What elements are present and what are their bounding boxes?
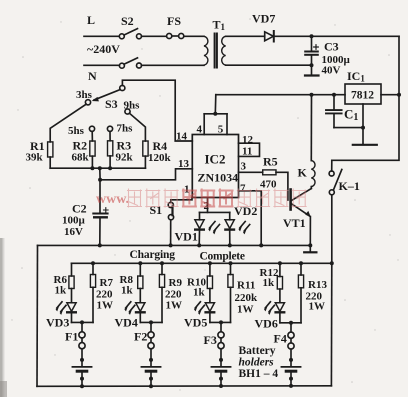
battery group 2 xyxy=(124,261,164,388)
wire join group 3 xyxy=(210,321,231,323)
resistor R10 xyxy=(207,276,212,289)
svg-text:VD3: VD3 xyxy=(46,316,69,330)
contact 9hs xyxy=(125,109,130,114)
wire R6 branch xyxy=(71,263,73,276)
resistor R4 xyxy=(143,141,148,156)
wire R10 branch xyxy=(209,263,211,276)
wire common rail R1-R4 xyxy=(50,167,145,169)
battery BH1 xyxy=(72,366,91,368)
connector F3 xyxy=(220,322,222,331)
switch S3 wiper arm xyxy=(94,90,120,100)
battery group 4 xyxy=(264,261,304,388)
wire R11 branch xyxy=(230,263,232,274)
watermark xyxy=(96,189,307,208)
IC2 box ZN1034 xyxy=(192,135,238,198)
node C1 bottom junction xyxy=(361,126,365,130)
svg-text:C3: C3 xyxy=(324,40,339,54)
svg-text:220k: 220k xyxy=(235,292,259,304)
svg-text:F1: F1 xyxy=(65,330,78,344)
svg-text:R5: R5 xyxy=(263,155,278,169)
node VD1 on rail A xyxy=(197,243,201,247)
svg-text:VD1: VD1 xyxy=(175,230,198,244)
svg-text:39k: 39k xyxy=(26,152,44,164)
wire pins 4-5 loop top xyxy=(204,113,227,115)
svg-text:4: 4 xyxy=(197,124,203,136)
resistor R6 xyxy=(69,276,74,289)
wire 3hs to R1 xyxy=(50,104,86,142)
wire R12 branch xyxy=(279,263,281,276)
bottom rail xyxy=(37,385,331,388)
resistor R2 xyxy=(90,141,95,156)
svg-text:VT1: VT1 xyxy=(283,216,306,230)
svg-text:~240V: ~240V xyxy=(87,42,120,56)
svg-text:R4: R4 xyxy=(153,139,168,153)
svg-text:1k: 1k xyxy=(121,285,134,297)
svg-text:IC2: IC2 xyxy=(205,152,226,167)
wire join group 1 xyxy=(72,321,94,323)
node R7 top xyxy=(91,261,95,265)
svg-text:Charging: Charging xyxy=(130,249,176,261)
svg-text:13: 13 xyxy=(178,158,190,170)
LED VD1 arrows xyxy=(210,222,216,229)
pin 4 stub xyxy=(203,114,205,135)
svg-text:Complete: Complete xyxy=(200,251,246,263)
svg-text:R9: R9 xyxy=(169,277,183,289)
svg-text:ZN1034: ZN1034 xyxy=(198,171,239,185)
relay K coil xyxy=(311,161,315,187)
switch S2 pole N xyxy=(119,63,124,68)
svg-text:1W: 1W xyxy=(166,300,183,312)
LED VD1 xyxy=(199,212,201,219)
svg-text:1W: 1W xyxy=(237,304,254,316)
resistor R7 xyxy=(90,275,95,288)
wire 7812 ground pin xyxy=(362,104,364,128)
MIDDLE SECTION xyxy=(48,80,193,245)
pin 2 wire to LEDs xyxy=(207,198,209,213)
svg-text:7812: 7812 xyxy=(351,90,374,102)
pin 5 stub xyxy=(226,114,228,135)
svg-text:VD6: VD6 xyxy=(255,317,278,331)
pin 12 / pin 11 link loop xyxy=(239,143,260,156)
wire 12V rail xyxy=(216,94,345,96)
node R13 top xyxy=(299,261,303,265)
wire supply drop from 12V rail xyxy=(214,95,217,114)
transistor VT1 xyxy=(289,190,292,210)
svg-text:F4: F4 xyxy=(274,332,287,346)
scan edge artifact xyxy=(0,238,3,397)
svg-text:12: 12 xyxy=(242,134,254,146)
wire join group 2 xyxy=(140,321,162,323)
LED VD4 xyxy=(136,303,145,312)
wire S2 to FS xyxy=(142,35,167,37)
resistor R9 xyxy=(159,275,164,288)
node R2 bottom xyxy=(90,166,94,170)
resistor R12 xyxy=(277,277,282,290)
battery BH2 xyxy=(141,366,160,368)
battery group 1 xyxy=(56,261,96,388)
wire S3 wiper feed xyxy=(122,80,192,141)
node R12 top xyxy=(278,261,282,265)
wire 5hs to R2 xyxy=(91,131,93,141)
ground rail A xyxy=(38,244,311,246)
svg-text:L: L xyxy=(87,13,95,27)
svg-text:K–1: K–1 xyxy=(339,179,360,193)
svg-text:1k: 1k xyxy=(263,277,276,289)
svg-text:N: N xyxy=(88,69,97,83)
ground below C3 xyxy=(311,65,313,74)
capacitor C1 xyxy=(333,95,335,110)
switch S3 wiper pivot xyxy=(120,85,125,90)
transformer T1 primary winding xyxy=(204,36,208,65)
node R3 bottom xyxy=(108,166,112,170)
svg-text:5: 5 xyxy=(218,124,224,136)
wire N line xyxy=(84,64,119,66)
svg-text:11: 11 xyxy=(242,146,252,158)
fuse FS xyxy=(167,33,172,38)
node R8 top xyxy=(138,261,142,265)
resistor R13 xyxy=(298,275,303,288)
svg-text:92k: 92k xyxy=(116,152,134,164)
wire coil to VT1 collector xyxy=(310,187,312,189)
LED VD3 xyxy=(67,303,76,312)
LED VD5 xyxy=(205,303,214,312)
wire rail to pin 13 xyxy=(100,169,192,180)
svg-text:R3: R3 xyxy=(117,139,132,153)
svg-text:BH1 – 4: BH1 – 4 xyxy=(239,368,279,380)
pin 7 wire to ground rail xyxy=(239,191,262,246)
svg-text:1W: 1W xyxy=(97,300,114,312)
resistor R1 xyxy=(48,142,53,157)
node R11 top xyxy=(229,261,233,265)
svg-text:40V: 40V xyxy=(322,65,341,77)
wire VT1 emitter to ground rail xyxy=(309,217,311,246)
regulator IC1 7812 box xyxy=(345,84,381,104)
node C3 bottom xyxy=(310,63,314,67)
pin 1 wire to S1 xyxy=(171,198,192,203)
svg-text:R11: R11 xyxy=(237,280,255,292)
svg-text:1W: 1W xyxy=(309,301,326,313)
contact 3hs xyxy=(85,100,90,105)
wire join group 4 xyxy=(280,322,301,324)
svg-text:R13: R13 xyxy=(308,279,327,291)
ground symbol right end xyxy=(309,245,311,251)
svg-text:www.: www. xyxy=(96,192,129,207)
svg-text:7hs: 7hs xyxy=(117,123,134,135)
svg-text:5hs: 5hs xyxy=(68,125,85,137)
wire R9 branch xyxy=(161,263,163,274)
svg-text:holders: holders xyxy=(239,357,275,369)
wire right rail upper xyxy=(398,36,400,94)
transformer T1 secondary winding xyxy=(222,36,226,65)
node VD2 on rail A xyxy=(228,243,232,247)
capacitor C3 xyxy=(311,36,313,50)
LED VD6 xyxy=(275,303,284,312)
svg-text:7: 7 xyxy=(240,183,246,195)
node 7812 right pin xyxy=(397,93,401,97)
svg-text:68k: 68k xyxy=(72,152,90,164)
node supply into loop xyxy=(213,112,217,116)
wire S2N to T1 primary xyxy=(142,64,205,66)
svg-text:R2: R2 xyxy=(73,139,88,153)
resistor R5 xyxy=(263,170,276,175)
battery BH3 xyxy=(211,366,230,368)
wire left drop to bottom rail xyxy=(36,245,39,386)
switch K-1 xyxy=(331,160,333,171)
wire R13 branch xyxy=(300,263,302,275)
node R10 top xyxy=(208,261,212,265)
node K-1 on rail B xyxy=(330,261,334,265)
connector F2 xyxy=(150,322,152,331)
wire right rail lower xyxy=(332,95,399,161)
svg-text:14: 14 xyxy=(176,131,188,143)
node C2 tap xyxy=(98,166,102,170)
svg-text:16V: 16V xyxy=(64,226,83,238)
svg-text:F3: F3 xyxy=(204,333,217,347)
svg-text:VD7: VD7 xyxy=(252,12,275,26)
contact 5hs xyxy=(89,126,94,131)
wire 9hs to R4 xyxy=(129,113,145,141)
battery BH4 xyxy=(281,366,300,368)
node top of C3 xyxy=(310,34,314,38)
svg-text:C2: C2 xyxy=(72,202,87,216)
diode VD7 xyxy=(265,32,274,41)
node C1 top xyxy=(332,93,336,97)
LED VD4 arrows xyxy=(130,305,135,311)
capacitor C2 xyxy=(99,180,101,213)
svg-text:3hs: 3hs xyxy=(76,89,93,101)
LED VD3 arrows xyxy=(61,305,66,311)
svg-text:S1: S1 xyxy=(150,203,163,217)
svg-text:100µ: 100µ xyxy=(62,215,86,227)
wire R7 branch xyxy=(92,263,94,274)
LED VD5 arrows xyxy=(199,305,204,311)
svg-text:1k: 1k xyxy=(193,287,206,299)
svg-text:FS: FS xyxy=(167,14,181,28)
svg-text:S2: S2 xyxy=(121,14,134,28)
battery group 3 xyxy=(194,261,233,388)
svg-text:120k: 120k xyxy=(148,152,172,164)
transformer T1 core xyxy=(214,34,216,68)
wire K-1 down to bottom rail xyxy=(330,263,332,386)
connector F1 xyxy=(81,322,83,331)
svg-text:VD5: VD5 xyxy=(184,316,207,330)
svg-text:3: 3 xyxy=(241,161,247,173)
switch S1 xyxy=(168,202,173,207)
charge rail B xyxy=(72,262,332,264)
wire tap down xyxy=(99,168,101,180)
wire 7hs to R3 xyxy=(109,131,111,140)
svg-text:1k: 1k xyxy=(55,285,68,297)
node C2 top xyxy=(98,178,102,182)
node S1 on rail A xyxy=(169,243,173,247)
wire L line xyxy=(84,35,119,37)
svg-text:K: K xyxy=(298,166,308,180)
LED VD6 arrows xyxy=(269,305,274,311)
wire VD7 to top-right corner xyxy=(275,35,399,37)
contact 7hs xyxy=(107,126,112,131)
wire R5 to VT1 base xyxy=(276,172,288,200)
wire secondary top to VD7 xyxy=(226,35,265,37)
ground below IC1 xyxy=(362,128,364,144)
LED VD2 xyxy=(229,212,231,219)
svg-text:VD4: VD4 xyxy=(115,316,138,330)
pin 3 wire to R5 xyxy=(239,171,263,173)
wire R8 branch xyxy=(139,263,141,276)
node R9 top xyxy=(160,261,164,265)
resistor R11 xyxy=(228,275,233,288)
connector F4 xyxy=(290,323,292,332)
node C2 on rail A xyxy=(98,243,102,247)
svg-text:Battery: Battery xyxy=(239,345,276,357)
svg-text:S3: S3 xyxy=(105,97,118,111)
wire secondary bottom to C3 xyxy=(226,64,312,66)
LED VD2 arrows xyxy=(240,222,246,229)
node VT1 emitter on rail A xyxy=(308,243,312,247)
resistor R8 xyxy=(138,276,143,289)
relay K coil feed xyxy=(310,93,314,97)
svg-text:9hs: 9hs xyxy=(124,100,141,112)
wire FS to T1 primary xyxy=(184,35,204,37)
svg-text:F2: F2 xyxy=(134,330,147,344)
node pin7 on rail A xyxy=(259,243,263,247)
resistor R3 xyxy=(108,141,113,156)
switch S2 pole L xyxy=(119,34,124,39)
svg-text:R7: R7 xyxy=(100,277,114,289)
